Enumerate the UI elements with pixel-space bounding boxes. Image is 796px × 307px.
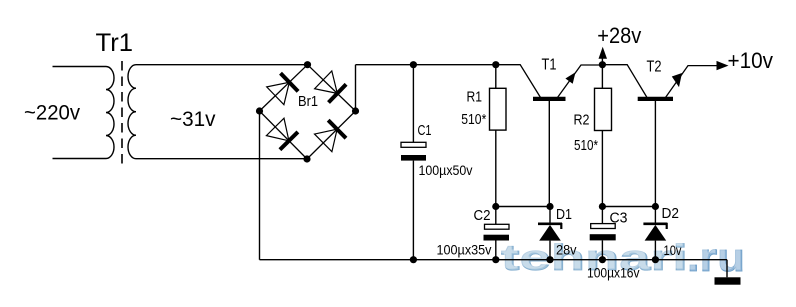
zener diode D1	[538, 207, 562, 260]
wire primary top lead	[53, 66, 107, 68]
svg-text:100µx35v: 100µx35v	[437, 242, 492, 257]
svg-text:510*: 510*	[574, 138, 598, 154]
node C2 bottom	[492, 256, 499, 263]
svg-text:Br1: Br1	[298, 94, 318, 110]
wire bottom negative rail	[260, 259, 728, 261]
node D2 bottom	[652, 256, 659, 263]
svg-text:~31v: ~31v	[170, 107, 216, 131]
svg-text:28v: 28v	[556, 242, 577, 258]
svg-text:C1: C1	[418, 123, 432, 139]
node J2 T1 base - D1	[546, 203, 553, 210]
diode Br1 bottom-left	[266, 118, 298, 150]
svg-text:R2: R2	[574, 113, 590, 129]
svg-text:C2: C2	[474, 208, 491, 224]
node R1 / T1 collector	[492, 61, 499, 68]
capacitor C2	[484, 207, 510, 260]
zener diode D2	[643, 207, 667, 260]
ground	[715, 260, 741, 285]
svg-text:10v: 10v	[664, 243, 682, 258]
wire bridge right node up	[355, 65, 357, 111]
wire base junction J3-J4	[602, 206, 655, 208]
wire secondary top to bridge AC node	[136, 64, 308, 66]
output +28v arrow	[599, 47, 608, 65]
svg-text:~220v: ~220v	[24, 101, 80, 125]
node +28v	[599, 61, 606, 68]
node C3 bottom	[599, 256, 606, 263]
diode Br1 top-left	[267, 73, 298, 105]
diode Br1 top-right	[315, 71, 347, 103]
wire base junction J1-J2	[496, 206, 550, 208]
wire primary bottom lead	[53, 158, 107, 160]
svg-text:100µx50v: 100µx50v	[419, 163, 473, 178]
transformer Tr1 primary winding	[106, 67, 114, 159]
watermark tehnari.ru	[500, 235, 746, 281]
wire top positive rail	[356, 64, 496, 66]
resistor R2	[595, 65, 612, 207]
svg-text:D1: D1	[556, 207, 572, 223]
wire bridge edge left-top	[260, 65, 308, 111]
capacitor C1	[401, 65, 426, 260]
svg-text:T2: T2	[647, 59, 662, 76]
wire bridge edge top-right	[308, 65, 356, 111]
node J4 T2 base - D2	[652, 203, 659, 210]
wire bridge left node down	[259, 111, 261, 260]
transistor T1	[496, 65, 603, 207]
svg-text:D2: D2	[662, 206, 680, 222]
node D1 bottom	[546, 256, 553, 263]
wire secondary bottom to bridge AC node	[136, 158, 307, 160]
transformer core (dashed)	[121, 61, 123, 164]
svg-text:T1: T1	[542, 57, 557, 74]
node bridge top	[304, 61, 311, 68]
transformer Tr1 secondary winding	[128, 65, 136, 159]
capacitor C3	[590, 207, 616, 260]
transistor T2	[602, 65, 717, 207]
node bridge left	[256, 107, 263, 114]
svg-text:510*: 510*	[461, 112, 486, 128]
node bridge right	[352, 107, 359, 114]
node C1 top	[410, 61, 417, 68]
svg-text:+28v: +28v	[597, 23, 641, 48]
output +10v arrow	[717, 61, 729, 70]
node J3 R2-C3	[599, 203, 606, 210]
node bridge bottom	[303, 155, 310, 162]
svg-text:Tr1: Tr1	[96, 29, 134, 57]
wire bridge edge bottom-right	[307, 111, 356, 159]
wire bridge edge left-bottom	[260, 111, 308, 159]
svg-text:+10v: +10v	[728, 48, 774, 73]
resistor R1	[490, 65, 507, 207]
svg-text:100µx16v: 100µx16v	[587, 266, 640, 281]
svg-text:R1: R1	[467, 90, 483, 106]
svg-text:.ru: .ru	[686, 235, 744, 279]
node J1 R1-C2	[492, 203, 499, 210]
node C1 bottom	[410, 256, 417, 263]
diode Br1 bottom-right	[315, 120, 347, 152]
